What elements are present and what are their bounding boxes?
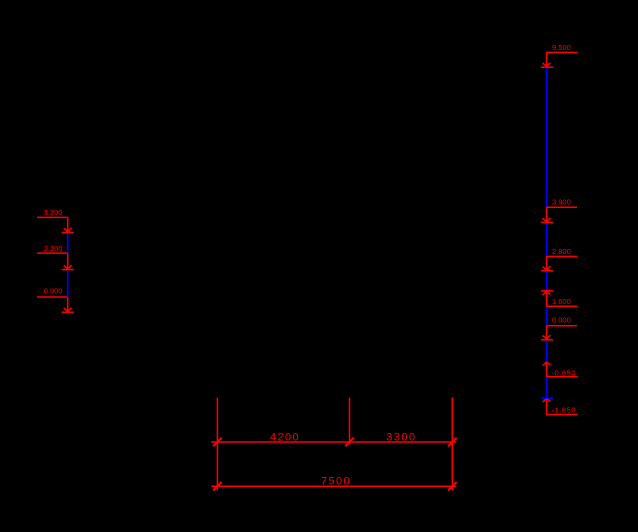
level marker 2.800 drop: [546, 256, 548, 270]
svg-text:1.600: 1.600: [552, 297, 571, 306]
level marker -0.650 drop: [546, 362, 548, 377]
level marker -1.850 drop: [546, 399, 548, 415]
level marker 2.200 drop: [67, 253, 69, 269]
right blue spine -0.650 to -1.850: [546, 378, 548, 398]
level marker 1.600 bar: [541, 290, 553, 292]
dimension line 4200/3300: [211, 441, 456, 443]
tick at 3300 right: [448, 438, 457, 447]
level marker 1.600 drop: [546, 291, 548, 306]
extension line right: [451, 398, 453, 491]
level marker 3.900 leader: [546, 206, 577, 208]
svg-text:9.500: 9.500: [552, 43, 571, 52]
level marker 9.500 bar: [541, 66, 553, 68]
svg-text:3.900: 3.900: [552, 198, 571, 207]
right blue spine 9.500 to 3.900: [546, 68, 548, 207]
level marker 0.900 chevron: [64, 308, 72, 312]
level marker -1.850 chevron (up): [543, 399, 551, 403]
svg-text:-1.850: -1.850: [552, 406, 577, 415]
level marker 3.900 drop: [546, 207, 548, 221]
level marker -0.650 leader: [546, 376, 577, 378]
extension line left: [216, 398, 218, 491]
level marker 3.200 chevron: [64, 228, 72, 232]
level marker 2.200 bar: [62, 269, 74, 271]
level marker 2.200 chevron: [64, 265, 72, 269]
level marker 0.900 leader: [37, 296, 68, 298]
svg-text:3300: 3300: [386, 432, 416, 444]
tick at 4200 left: [213, 438, 222, 447]
level marker 0.000 leader: [546, 325, 577, 327]
left blue spine 3.200 to 2.200: [67, 234, 69, 254]
svg-text:7500: 7500: [321, 476, 351, 488]
level marker 3.900 chevron: [543, 218, 551, 222]
level marker 1.600 chevron (up): [543, 291, 551, 295]
svg-text:4200: 4200: [270, 432, 300, 444]
svg-text:-0.650: -0.650: [552, 369, 577, 378]
level marker 2.200 leader: [37, 252, 68, 254]
level marker 9.500 chevron: [543, 63, 551, 67]
left blue spine 2.200 to 0.900: [67, 271, 69, 297]
svg-text:2.800: 2.800: [552, 247, 571, 256]
level marker 9.500 drop: [546, 52, 548, 66]
level marker 3.200 drop: [67, 217, 69, 231]
level marker 2.800 chevron: [543, 266, 551, 270]
level marker -0.650 chevron (up): [543, 362, 551, 366]
level marker 0.000 bar: [541, 339, 553, 341]
blue bar at -1.850: [541, 397, 553, 399]
right blue spine 2.800 to 1.600: [546, 272, 548, 290]
svg-text:0.900: 0.900: [44, 287, 63, 296]
tick at 7500 right: [448, 482, 457, 491]
extension line middle: [349, 398, 351, 445]
level marker -1.850 leader: [546, 414, 577, 416]
right blue spine 3.900 to 2.800: [546, 224, 548, 257]
level marker 2.800 bar: [541, 270, 553, 272]
level marker 9.500 leader: [546, 51, 577, 53]
level marker 3.900 bar: [541, 221, 553, 223]
level marker 2.800 leader: [546, 255, 577, 257]
level marker 1.600 leader: [546, 305, 577, 307]
svg-text:2.200: 2.200: [44, 244, 63, 253]
svg-text:0.000: 0.000: [552, 316, 571, 325]
level marker 3.200 bar: [62, 231, 74, 233]
level marker 0.000 chevron: [543, 335, 551, 339]
tick at 4200/3300 middle: [345, 438, 354, 447]
dimension line 7500: [211, 485, 456, 487]
level marker 0.900 drop: [67, 297, 69, 312]
blue spine segments: [68, 68, 553, 398]
tick at 7500 left: [213, 482, 222, 491]
level marker 0.900 bar: [62, 311, 74, 313]
level marker 3.200 leader: [37, 216, 68, 218]
svg-text:3.200: 3.200: [44, 208, 63, 217]
right blue spine 0.000 to -0.650: [546, 341, 548, 361]
right blue spine 1.600 to 0.000: [546, 307, 548, 325]
level marker 0.000 drop: [546, 326, 548, 339]
